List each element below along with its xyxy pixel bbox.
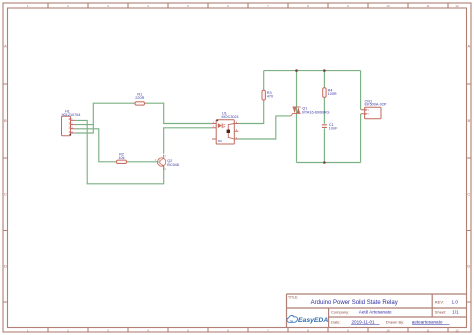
svg-text:C: C: [467, 192, 470, 197]
svg-text:Aetê Artesanato: Aetê Artesanato: [359, 310, 392, 315]
svg-text:A: A: [4, 44, 7, 49]
svg-text:10: 10: [386, 4, 390, 8]
svg-text:470: 470: [267, 95, 273, 99]
svg-text:Drawn By:: Drawn By:: [386, 320, 404, 325]
svg-text:4: 4: [147, 4, 149, 8]
svg-text:MOC3021: MOC3021: [222, 115, 239, 119]
svg-text:2: 2: [67, 4, 69, 8]
svg-text:EasyEDA: EasyEDA: [298, 317, 328, 324]
svg-text:901210764: 901210764: [62, 113, 81, 117]
svg-text:BC548: BC548: [167, 163, 179, 167]
svg-text:1: 1: [165, 156, 167, 158]
svg-text:8: 8: [307, 4, 309, 8]
svg-text:10k: 10k: [118, 156, 124, 160]
svg-text:TITLE:: TITLE:: [288, 296, 298, 300]
svg-text:BTA16-600BRG: BTA16-600BRG: [302, 110, 329, 114]
svg-text:3: 3: [107, 4, 109, 8]
svg-text:NC: NC: [218, 139, 223, 143]
svg-text:10nF: 10nF: [329, 127, 338, 131]
svg-text:11: 11: [426, 328, 429, 332]
svg-text:Arduino Power Solid State Rela: Arduino Power Solid State Relay: [311, 300, 398, 306]
svg-text:D: D: [467, 264, 470, 269]
svg-text:C: C: [4, 192, 7, 197]
svg-text:D: D: [4, 264, 7, 269]
svg-text:1/1: 1/1: [452, 310, 459, 315]
svg-text:220R: 220R: [135, 96, 144, 100]
svg-text:aeteartesanato: aeteartesanato: [412, 320, 443, 325]
svg-text:9: 9: [347, 4, 349, 8]
svg-text:5: 5: [187, 4, 189, 8]
svg-text:Sheet:: Sheet:: [435, 310, 447, 315]
svg-text:Company:: Company:: [331, 310, 349, 315]
svg-text:Date:: Date:: [331, 320, 341, 325]
svg-text:A: A: [467, 44, 470, 49]
svg-text:6: 6: [227, 4, 229, 8]
svg-text:REV:: REV:: [435, 299, 444, 304]
svg-text:11: 11: [426, 4, 429, 8]
svg-text:100R: 100R: [328, 92, 337, 96]
svg-text:EK500A-02P: EK500A-02P: [365, 103, 387, 107]
svg-text:B: B: [467, 118, 470, 123]
svg-text:7: 7: [267, 4, 269, 8]
svg-text:1.0: 1.0: [452, 299, 459, 304]
svg-text:2019-11-01: 2019-11-01: [352, 320, 376, 325]
svg-text:B: B: [4, 118, 7, 123]
svg-text:3: 3: [165, 169, 167, 171]
svg-text:10: 10: [386, 328, 390, 332]
svg-text:12: 12: [455, 4, 459, 8]
svg-text:12: 12: [455, 328, 459, 332]
svg-text:1: 1: [27, 4, 29, 8]
